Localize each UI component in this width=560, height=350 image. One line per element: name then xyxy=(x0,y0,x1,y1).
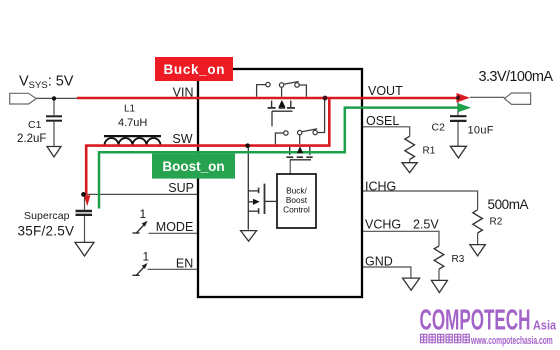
svg-text:MODE: MODE xyxy=(156,220,194,234)
svg-text:SW: SW xyxy=(172,132,192,146)
svg-text:2.2uF: 2.2uF xyxy=(17,133,46,145)
svg-text:Buck_on: Buck_on xyxy=(164,62,225,77)
svg-text:VCHG: VCHG xyxy=(365,218,401,232)
svg-text:EN: EN xyxy=(176,256,193,270)
svg-text:VOUT: VOUT xyxy=(368,84,403,98)
svg-text:3.3V/100mA: 3.3V/100mA xyxy=(479,69,554,85)
svg-text:10uF: 10uF xyxy=(468,125,494,137)
svg-text:2.5V: 2.5V xyxy=(413,218,439,232)
svg-text:Boost: Boost xyxy=(286,195,308,205)
svg-text:C1: C1 xyxy=(28,119,42,131)
svg-text:ICHG: ICHG xyxy=(365,179,396,193)
svg-text:1: 1 xyxy=(143,250,150,264)
svg-text:GND: GND xyxy=(365,255,393,269)
svg-text:Supercap: Supercap xyxy=(24,210,70,222)
svg-text:Control: Control xyxy=(283,205,310,215)
svg-text:1: 1 xyxy=(140,207,147,221)
svg-text:C2: C2 xyxy=(432,122,446,134)
svg-text:500mA: 500mA xyxy=(488,197,529,212)
svg-text:R1: R1 xyxy=(423,145,436,156)
svg-text:L1: L1 xyxy=(124,104,136,115)
svg-text:4.7uH: 4.7uH xyxy=(118,117,147,129)
svg-text:Asia: Asia xyxy=(533,318,556,333)
svg-text:Boost_on: Boost_on xyxy=(162,159,224,174)
svg-text:SUP: SUP xyxy=(168,181,194,195)
svg-text:R3: R3 xyxy=(452,254,465,265)
svg-text:VIN: VIN xyxy=(173,86,194,100)
svg-text:35F/2.5V: 35F/2.5V xyxy=(18,224,75,239)
svg-text:OSEL: OSEL xyxy=(366,114,399,128)
svg-text:COMPOTECH: COMPOTECH xyxy=(420,304,531,336)
svg-text:www.compotechasia.com: www.compotechasia.com xyxy=(470,334,553,346)
svg-text:Buck/: Buck/ xyxy=(286,186,307,196)
svg-text:R2: R2 xyxy=(490,216,503,227)
